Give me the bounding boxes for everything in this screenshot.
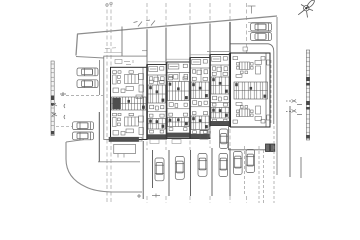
garden party-wall extensions xyxy=(147,24,210,66)
left garden fence line xyxy=(76,57,104,59)
survey T mark top right xyxy=(248,6,256,14)
right survey strip xyxy=(306,50,309,140)
U5 bottom dark band xyxy=(211,121,230,125)
car left lower 1 xyxy=(73,122,94,130)
garden wall U6 xyxy=(229,22,231,54)
stall tick xyxy=(152,194,160,198)
U2 core band upper xyxy=(148,85,166,103)
U4 core band upper xyxy=(191,82,209,99)
U3 mid room furniture xyxy=(167,103,191,131)
left survey strip xyxy=(51,61,54,136)
entry steps U6 xyxy=(243,47,248,51)
north symbol xyxy=(298,0,315,17)
car bottom E xyxy=(234,152,243,175)
car left upper 2 xyxy=(77,80,98,88)
U1 core band xyxy=(112,97,147,110)
U6 core band xyxy=(234,82,268,99)
unit U5 outer walls xyxy=(210,55,230,126)
dashed access line lower-left xyxy=(56,126,72,128)
unit U4 outer walls xyxy=(190,58,210,139)
U6 walkway xyxy=(229,149,273,151)
right inner fence xyxy=(289,106,291,177)
dark mark under U4 xyxy=(200,131,208,140)
unit U1 outer walls xyxy=(111,67,148,139)
grid lines below building xyxy=(147,127,247,203)
grid labels top xyxy=(106,2,113,6)
dimension ticks on boundary xyxy=(134,20,156,27)
porch under U2 xyxy=(150,140,159,144)
garden wall left of U1 xyxy=(121,27,123,57)
car bottom A xyxy=(155,158,164,181)
lower-left yard fence xyxy=(98,112,100,162)
U5 mid room furniture xyxy=(210,96,230,122)
porch under U3 xyxy=(172,140,181,144)
U2 entry room xyxy=(147,67,167,86)
terrace line above U1 xyxy=(104,52,122,54)
car bottom C xyxy=(198,154,207,177)
U1 lower flat furniture xyxy=(113,113,144,141)
parking stall lines xyxy=(143,126,274,203)
U2 mid room furniture xyxy=(147,105,167,133)
U3 core band upper xyxy=(168,82,190,101)
U2 bottom dark band xyxy=(148,134,167,138)
road curve bottom-left xyxy=(66,142,142,192)
car left lower 2 xyxy=(73,132,94,140)
U5 core band lower xyxy=(211,108,229,119)
car bottom D xyxy=(219,154,228,177)
U3 entry room xyxy=(167,64,191,82)
left unit terrace outline xyxy=(104,56,147,139)
road top short line xyxy=(66,140,84,142)
car top-right 2 xyxy=(251,33,272,41)
car bottom F xyxy=(246,150,255,173)
U6 upper flat furniture xyxy=(233,57,270,78)
U4 core band lower xyxy=(191,116,209,130)
car left upper 1 xyxy=(77,68,98,76)
bin enclosure xyxy=(266,144,275,152)
site boundary top slanted xyxy=(76,16,277,56)
road end tick xyxy=(137,194,141,198)
U4 mid room furniture xyxy=(190,101,210,134)
terrace lines above units xyxy=(147,55,210,62)
U4 entry room xyxy=(190,60,210,83)
car top-right 1 xyxy=(251,23,272,31)
dashed access line upper-left xyxy=(61,95,103,97)
garden terrace lines above right units xyxy=(207,51,231,53)
party wall thick bars xyxy=(146,53,231,139)
site boundary right vertical xyxy=(276,17,278,175)
U1 bottom dark band / porch xyxy=(109,137,139,142)
unit U3 outer walls xyxy=(167,62,191,139)
right strip annotations xyxy=(286,100,302,115)
U4 bottom dark band xyxy=(191,134,210,139)
parking edge + driveway curve top-right xyxy=(231,44,274,124)
car on driveway below U5 xyxy=(220,129,228,149)
U3 bottom dark band xyxy=(167,133,190,138)
unit U6 outer walls xyxy=(231,53,271,127)
tiny text marks above U1 terrace xyxy=(105,47,116,50)
left strip annotations xyxy=(52,92,66,119)
unit U2 outer walls xyxy=(147,65,167,140)
U2 core band lower xyxy=(148,119,166,130)
car bottom B xyxy=(175,157,184,180)
U5 core band upper xyxy=(211,77,229,94)
U5 entry room xyxy=(210,57,230,78)
right short fence xyxy=(300,157,302,178)
U6 lower flat furniture xyxy=(233,103,270,124)
grid axis lines xyxy=(107,3,247,203)
U3 core band lower xyxy=(168,118,190,127)
U1 upper flat furniture xyxy=(113,71,144,99)
U1 terrace marks xyxy=(115,60,133,65)
